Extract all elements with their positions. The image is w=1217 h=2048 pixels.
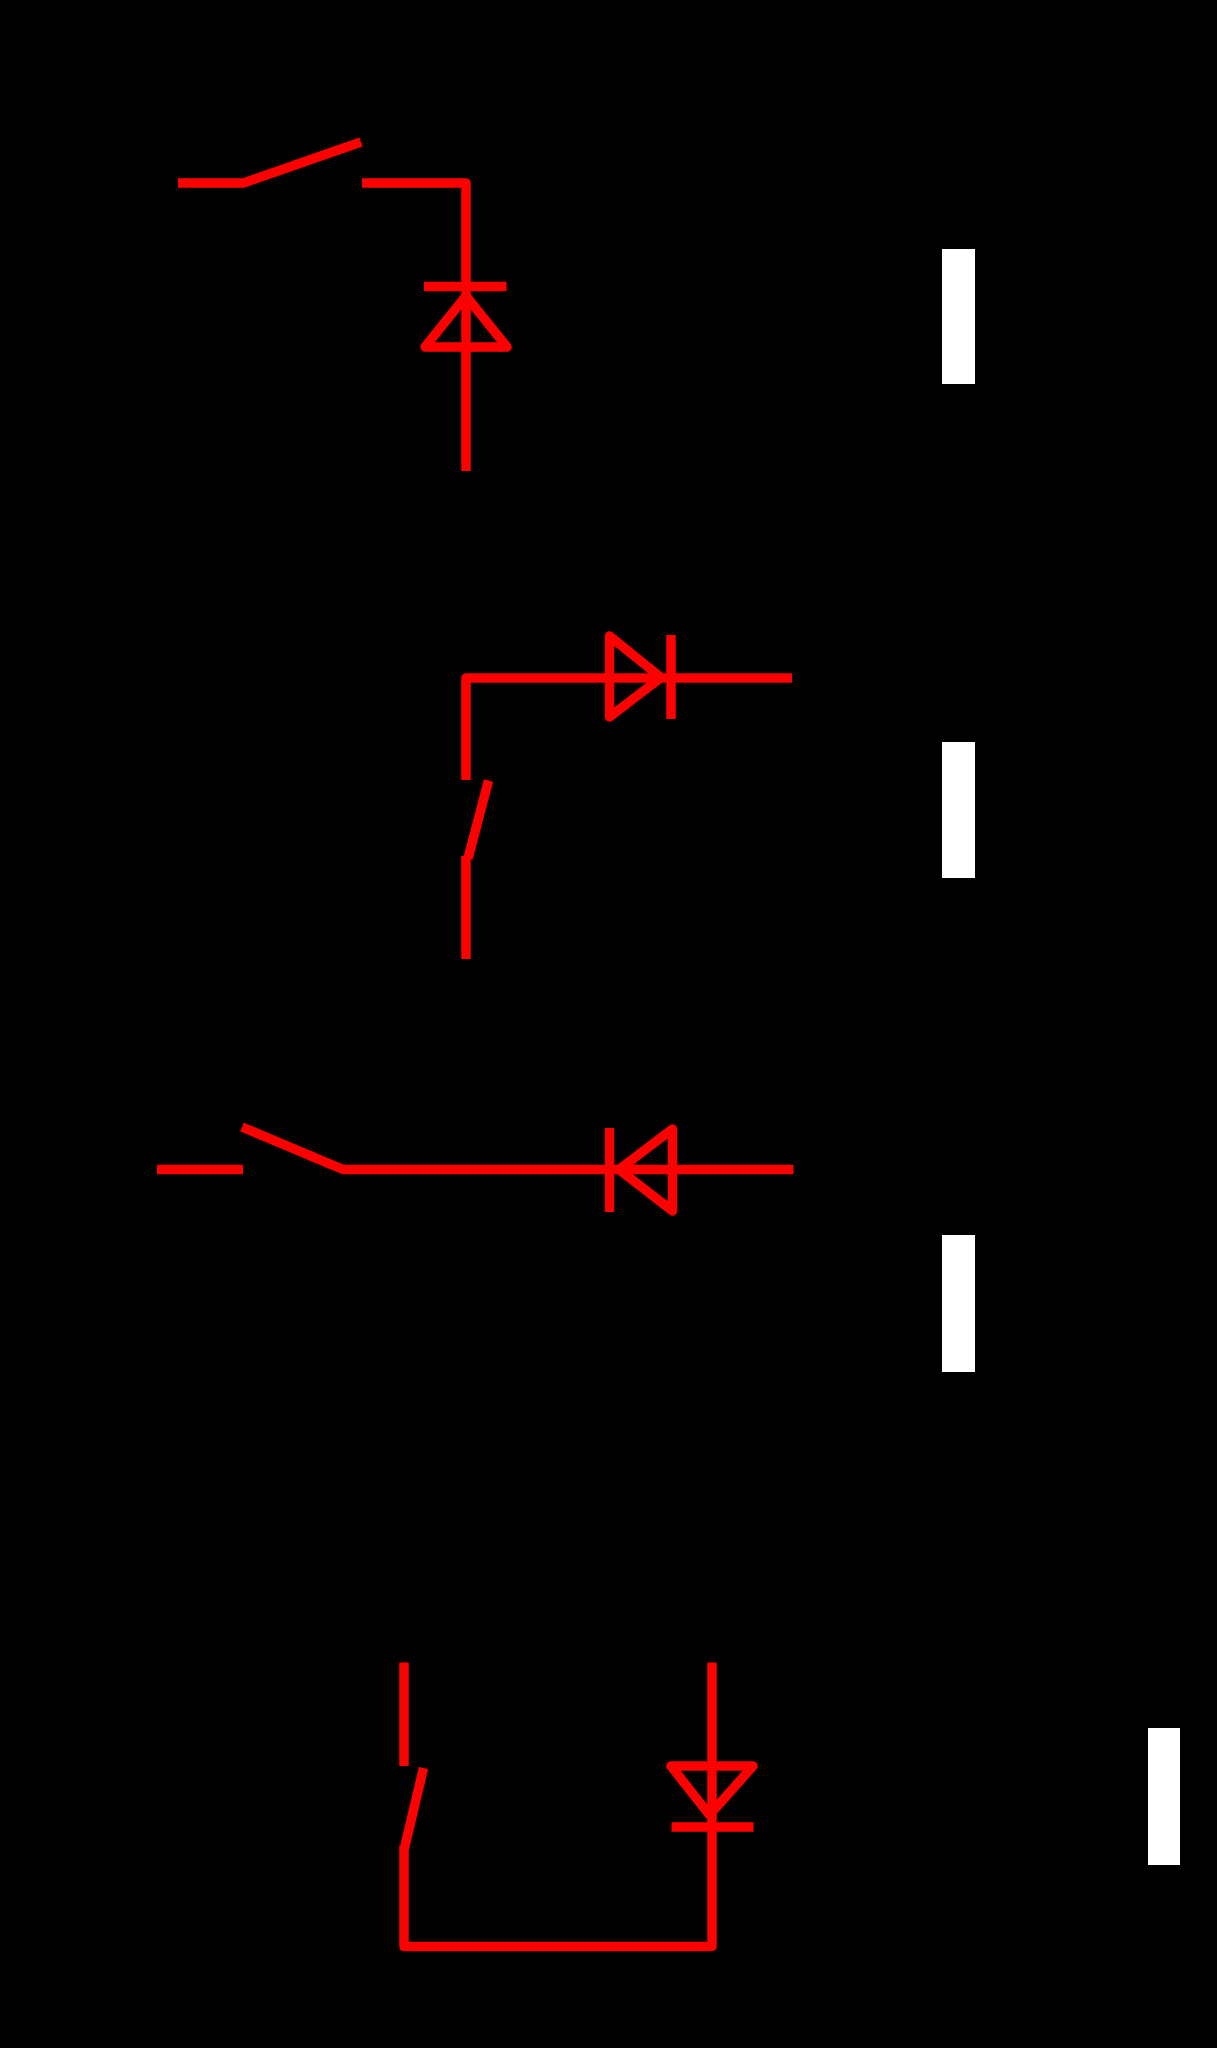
diode D1 cathode bar <box>424 282 507 292</box>
diode D4 triangle <box>671 1766 753 1815</box>
wire from S4 through diode D4 loop <box>404 1663 712 1947</box>
diode D2 cathode bar <box>666 635 676 719</box>
switch S2 lever <box>468 781 489 859</box>
wire from S1 to diode D1 <box>362 183 466 471</box>
switch S1 left terminal and lever <box>178 142 361 183</box>
diode D3 cathode bar <box>605 1128 615 1212</box>
lamp L2 lit filament <box>942 742 975 878</box>
diode D2 triangle <box>610 636 662 717</box>
switch S3 left terminal <box>157 1165 243 1175</box>
diode D1 triangle <box>425 296 507 347</box>
switch S4 lever <box>405 1768 424 1848</box>
lamp L4 lit filament <box>1148 1728 1180 1865</box>
diode D4 cathode bar <box>672 1822 754 1832</box>
lamp L3 lit filament <box>942 1235 975 1372</box>
switch S3 lever and wire through diode D3 <box>242 1127 794 1170</box>
wire from diode D2 to switch S2 <box>466 678 792 780</box>
wire above switch S4 <box>399 1663 409 1767</box>
lamp L1 lit filament <box>942 249 975 384</box>
diode D3 triangle <box>619 1129 673 1211</box>
wire below switch S2 <box>461 856 471 959</box>
